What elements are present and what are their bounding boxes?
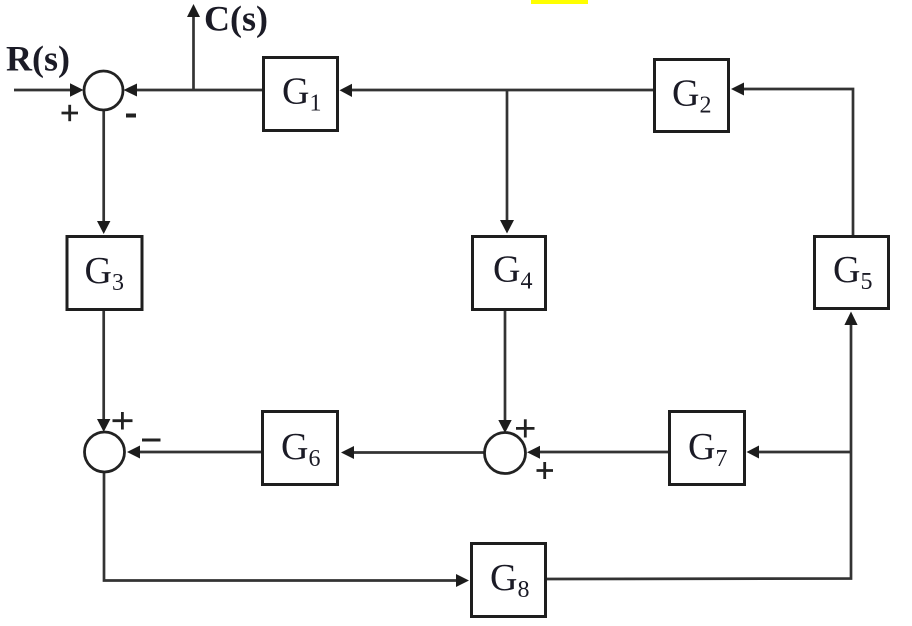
- svg-text:C(s): C(s): [204, 0, 268, 39]
- svg-text:R(s): R(s): [6, 39, 70, 79]
